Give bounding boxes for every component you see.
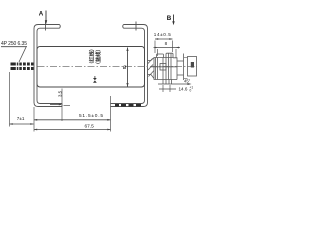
svg-text:B: B — [167, 15, 172, 22]
dim 8 line with outside arrows — [154, 47, 181, 49]
dark hub in end disc — [191, 62, 194, 68]
head internal verticals — [155, 58, 157, 80]
small datum mark on bottom edge — [94, 76, 96, 78]
underline of spec text — [1, 46, 27, 48]
dim 7±1 line — [10, 123, 34, 125]
svg-text:14±0.5: 14±0.5 — [154, 32, 171, 37]
mounting strap outer contour (left post, top tab, foot) — [34, 25, 62, 107]
leader line to terminal — [19, 47, 26, 62]
head mid horizontal — [151, 66, 177, 68]
svg-text:A: A — [39, 11, 44, 18]
svg-text:67.5: 67.5 — [85, 123, 95, 129]
motor body outline — [37, 47, 145, 88]
svg-text:3.5: 3.5 — [57, 90, 62, 97]
svg-text:0: 0 — [190, 89, 192, 93]
small window rect in head — [160, 64, 166, 71]
extension line from strap left — [33, 107, 35, 132]
left tab tip cap — [59, 25, 62, 29]
dim 14.6 line — [159, 88, 176, 90]
section tick on right tab — [135, 22, 137, 31]
nub 2 on head — [166, 53, 173, 57]
svg-text:（蓝线）: （蓝线） — [94, 46, 102, 67]
rubber pads on right foot — [115, 104, 141, 107]
dim 51.5±0.5 line — [34, 119, 111, 121]
flange hatch — [148, 59, 153, 64]
shaft top and bottom lines — [177, 60, 184, 62]
svg-text:51.5±0.5: 51.5±0.5 — [79, 113, 103, 119]
terminal crimp white notches — [16, 63, 31, 71]
pump head neck lines — [148, 53, 197, 84]
diameter dimension line inside body — [127, 48, 129, 87]
terminal block row 1 — [11, 63, 34, 71]
foot tip small arrow — [50, 104, 61, 106]
section arrow B — [173, 15, 175, 22]
mounting strap inner contour left — [37, 28, 62, 103]
svg-text:7±1: 7±1 — [17, 116, 25, 121]
svg-text:（红线）: （红线） — [88, 46, 96, 67]
shaft washer line — [183, 54, 185, 81]
svg-text:45°: 45° — [184, 79, 191, 84]
left foot tip cap — [61, 104, 63, 107]
section arrow A — [45, 11, 47, 21]
dim 8 extension lines — [157, 49, 159, 56]
dim 14.6 extension ticks — [162, 85, 164, 92]
extension line mid foot — [61, 89, 63, 122]
pump head outline — [154, 58, 177, 80]
svg-text:8: 8 — [165, 41, 168, 46]
center axis dash-dot line — [38, 66, 198, 68]
neck chamfer bottom — [151, 75, 154, 79]
head top right step — [173, 58, 177, 80]
mounting strap inner contour right — [111, 28, 145, 103]
disc hidden edge ticks — [184, 57, 188, 59]
head legs to base line — [162, 80, 164, 85]
nub 1 on head — [157, 54, 164, 58]
dim 67.5 line — [34, 129, 111, 131]
base line under head with arrow — [158, 83, 190, 85]
svg-text:ø: ø — [123, 65, 127, 71]
end disc — [188, 57, 197, 77]
section tick on left tab — [45, 22, 47, 31]
neck chamfer top — [151, 58, 154, 61]
svg-text:4P 250 6.35: 4P 250 6.35 — [1, 41, 27, 47]
dim 14±0.5 line — [155, 38, 173, 40]
extension line from terminal tip — [9, 72, 11, 127]
right tab tip cap — [122, 25, 125, 29]
svg-text:14.6: 14.6 — [179, 86, 188, 91]
dim 14±0.5 extension lines — [154, 41, 156, 54]
extension line right foot tip — [110, 96, 112, 132]
mounting strap outer contour (right post, top tab, foot) — [111, 25, 148, 107]
